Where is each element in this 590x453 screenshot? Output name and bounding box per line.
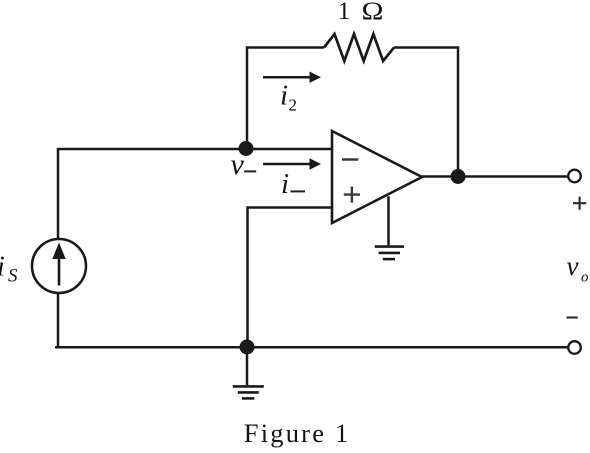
svg-text:v: v [231, 148, 245, 181]
svg-text:1: 1 [338, 0, 351, 25]
svg-text:i: i [281, 168, 289, 200]
svg-text:i: i [280, 80, 288, 112]
svg-text:o: o [581, 270, 589, 286]
svg-text:S: S [8, 266, 18, 287]
svg-text:2: 2 [289, 96, 298, 115]
svg-text:v: v [567, 251, 579, 281]
svg-text:i: i [0, 252, 5, 283]
svg-text:Ω: Ω [362, 0, 384, 25]
